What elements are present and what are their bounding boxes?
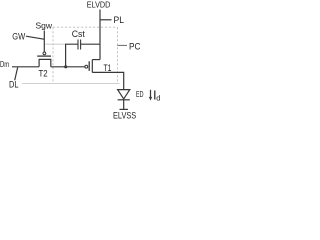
svg-text:GW: GW bbox=[12, 32, 25, 43]
power line ELVDD vertical bbox=[99, 10, 101, 60]
svg-text:ELVSS: ELVSS bbox=[113, 110, 136, 120]
ELVSS terminal bar bbox=[120, 108, 128, 110]
T1 channel bbox=[91, 60, 93, 73]
node junction dot bbox=[64, 65, 67, 68]
capacitor Cst bbox=[66, 40, 100, 67]
svg-text:PL: PL bbox=[114, 15, 125, 25]
PC pointer bbox=[117, 44, 127, 46]
bottom boundary line bbox=[22, 83, 120, 85]
gray stub segment bbox=[45, 43, 65, 45]
svg-text:ED: ED bbox=[136, 90, 144, 99]
svg-text:T2: T2 bbox=[39, 68, 48, 79]
svg-text:ELVDD: ELVDD bbox=[87, 0, 111, 9]
T2 gate wire Sgw bbox=[43, 31, 45, 53]
T2 gate bar bbox=[37, 55, 51, 57]
ED cathode bar bbox=[118, 99, 130, 101]
ED triangle bbox=[118, 90, 130, 99]
svg-text:Cst: Cst bbox=[72, 28, 85, 39]
T2 gate circle bbox=[43, 52, 46, 55]
svg-text:Sgw: Sgw bbox=[36, 21, 53, 31]
T1 gate circle bbox=[85, 65, 88, 68]
svg-text:PC: PC bbox=[129, 42, 141, 53]
svg-text:d: d bbox=[156, 93, 160, 102]
Cst right lead bbox=[81, 43, 100, 45]
svg-text:Dm: Dm bbox=[0, 60, 9, 69]
Cst plates bbox=[78, 40, 81, 50]
wire T2 to T1 gate bbox=[51, 66, 85, 68]
svg-text:T1: T1 bbox=[104, 63, 112, 74]
DL pointer bbox=[15, 67, 18, 80]
T1 drain corner bbox=[92, 59, 100, 61]
svg-text:DL: DL bbox=[9, 80, 19, 91]
wire to ELVSS bbox=[123, 100, 125, 110]
dashed box PC bbox=[53, 27, 118, 83]
T2 channel bump bbox=[39, 59, 51, 66]
PL pointer bbox=[100, 19, 111, 21]
transistor T1 bbox=[85, 60, 100, 73]
current arrow Id bbox=[150, 90, 152, 98]
transistor T2 bbox=[37, 31, 51, 67]
GW pointer bbox=[26, 36, 44, 39]
wire Dm data line bbox=[12, 66, 39, 68]
T1 gate bar bbox=[88, 61, 90, 71]
diode ED bbox=[118, 90, 130, 110]
wire T1 source to diode bbox=[92, 72, 123, 89]
Cst left lead bbox=[66, 44, 78, 67]
